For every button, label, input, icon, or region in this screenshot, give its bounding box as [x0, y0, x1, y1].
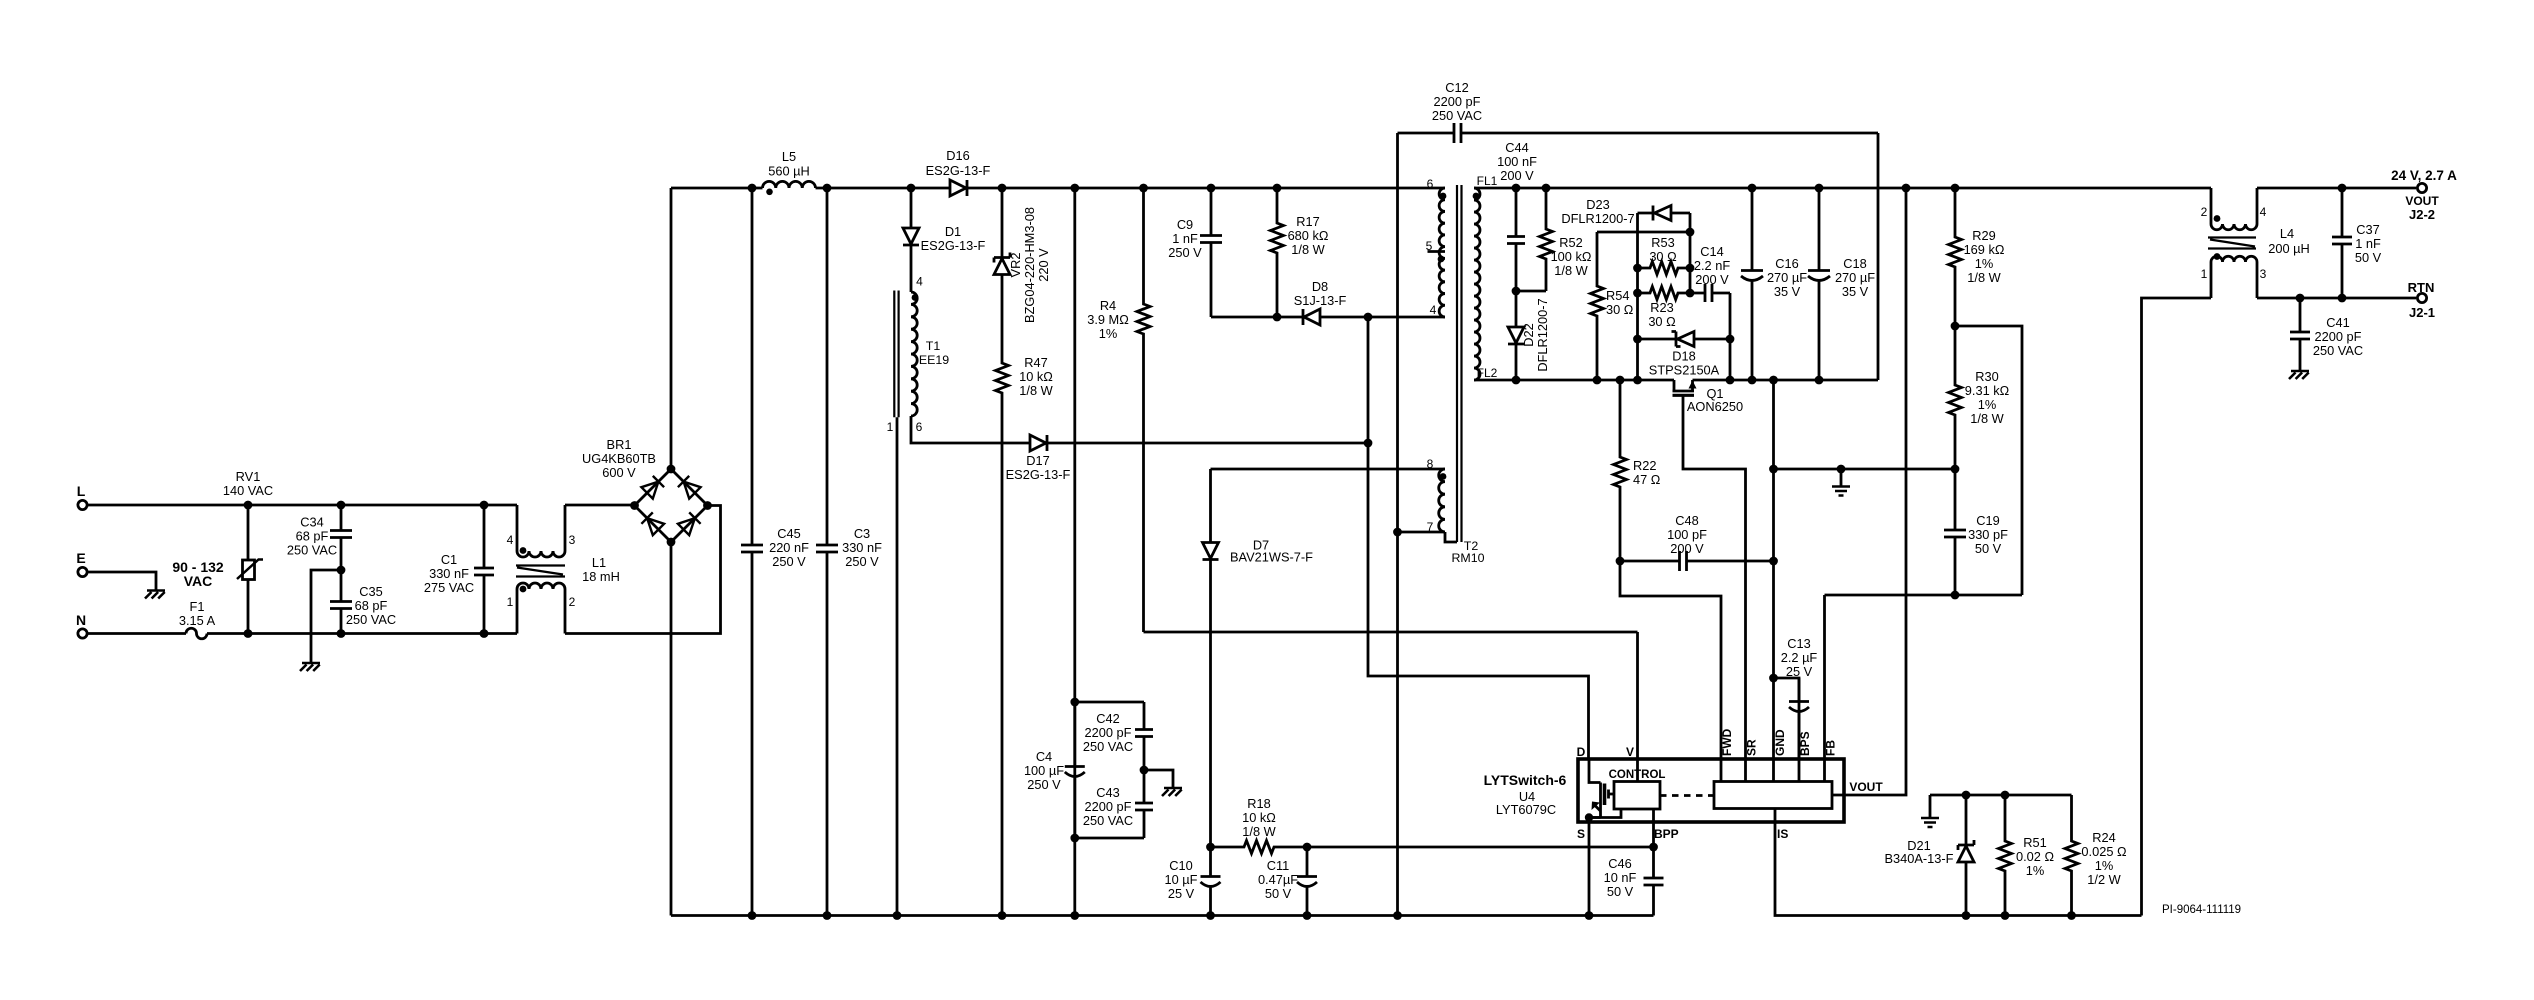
diode D16 — [926, 148, 991, 196]
svg-text:270 µF: 270 µF — [1835, 270, 1875, 285]
capacitor C34 — [287, 505, 352, 570]
node C34-C35 junction to ground — [311, 566, 345, 663]
capacitor C3 — [816, 188, 882, 916]
wire BR1 bottom to GND bus — [670, 542, 673, 916]
svg-text:R53: R53 — [1651, 235, 1674, 250]
ground (C34/C35 midpoint) — [300, 663, 320, 671]
svg-text:LYT6079C: LYT6079C — [1496, 802, 1556, 817]
svg-text:1%: 1% — [1975, 256, 1994, 271]
svg-text:R24: R24 — [2092, 830, 2115, 845]
diode D23 — [1561, 197, 1690, 226]
svg-text:C9: C9 — [1177, 217, 1193, 232]
capacitor C46 — [1604, 847, 1664, 916]
svg-text:R52: R52 — [1559, 235, 1582, 250]
capacitor C43 — [1083, 770, 1153, 838]
resistor R23 — [1638, 287, 1691, 330]
svg-text:C35: C35 — [359, 584, 382, 599]
pin label FB — [1824, 740, 1838, 756]
fuse F1 — [88, 599, 248, 639]
svg-text:C11: C11 — [1267, 858, 1290, 873]
svg-text:3.9 MΩ: 3.9 MΩ — [1087, 312, 1129, 327]
resistor R17 — [1271, 188, 1329, 317]
capacitor C19 — [1944, 469, 2008, 595]
wire FL1 rail — [1474, 184, 2211, 193]
label output rating — [2391, 168, 2457, 183]
svg-text:C48: C48 — [1675, 513, 1698, 528]
svg-text:VOUT: VOUT — [1849, 780, 1883, 794]
pin label FWD — [1720, 728, 1734, 756]
wire FB row — [1825, 591, 2023, 760]
svg-text:ES2G-13-F: ES2G-13-F — [1006, 467, 1071, 482]
pin label GND — [1773, 729, 1787, 756]
svg-text:30 Ω: 30 Ω — [1648, 314, 1676, 329]
capacitor C4 — [1024, 702, 1085, 838]
wire divider tap — [1951, 322, 2022, 595]
wire secondary GND vertical — [1769, 380, 1778, 760]
wire L1 pin3 to BR1 left — [565, 504, 635, 507]
svg-text:D17: D17 — [1026, 453, 1049, 468]
wire V-node row — [1206, 843, 1658, 852]
svg-text:0.47µF: 0.47µF — [1258, 872, 1298, 887]
wire L1 pin2 to BR1 right — [565, 506, 721, 634]
svg-text:18 mH: 18 mH — [582, 569, 620, 584]
pin label BPP — [1654, 827, 1679, 841]
wire FL2 rail right — [1693, 376, 1879, 385]
wire HV top bus — [671, 184, 1445, 193]
svg-text:BPS: BPS — [1798, 731, 1812, 756]
node E (earth terminal) — [76, 550, 87, 577]
svg-text:R51: R51 — [2023, 835, 2046, 850]
wire C4 branch — [1070, 188, 1079, 916]
capacitor C16 — [1741, 188, 1807, 380]
svg-text:3.15 A: 3.15 A — [179, 613, 216, 628]
node C42-C43 midpoint — [1140, 766, 1173, 788]
capacitor C14 — [1690, 244, 1730, 302]
svg-text:1%: 1% — [1099, 326, 1118, 341]
node U4 right block — [1714, 782, 1832, 809]
svg-text:1/8 W: 1/8 W — [1242, 824, 1276, 839]
svg-text:250 V: 250 V — [845, 554, 879, 569]
svg-text:2200 pF: 2200 pF — [1434, 94, 1481, 109]
svg-text:C19: C19 — [1976, 513, 1999, 528]
svg-text:L4: L4 — [2280, 226, 2294, 241]
pin label BPS — [1798, 731, 1812, 756]
resistor R53 — [1638, 235, 1691, 275]
svg-text:100 kΩ: 100 kΩ — [1551, 249, 1592, 264]
svg-text:1%: 1% — [2095, 858, 2114, 873]
wire RTN return vertical — [2142, 298, 2212, 916]
diode D22 — [1508, 291, 1550, 380]
svg-text:1/2 W: 1/2 W — [2087, 872, 2121, 887]
svg-text:ES2G-13-F: ES2G-13-F — [926, 163, 991, 178]
svg-text:3: 3 — [2260, 267, 2267, 281]
svg-text:ES2G-13-F: ES2G-13-F — [921, 238, 986, 253]
wire L line — [88, 501, 517, 510]
svg-text:30 Ω: 30 Ω — [1606, 302, 1634, 317]
svg-text:C16: C16 — [1775, 256, 1798, 271]
wire BPP route — [1652, 823, 1655, 847]
svg-text:BR1: BR1 — [607, 437, 632, 452]
svg-text:EE19: EE19 — [919, 353, 949, 367]
svg-text:200 V: 200 V — [1695, 272, 1729, 287]
wire VOUT vertical — [1844, 188, 1906, 795]
diode D7 — [1203, 536, 1314, 565]
svg-text:2200 pF: 2200 pF — [2315, 329, 2362, 344]
wire output VOUT rail — [2257, 184, 2416, 193]
diode D17 — [1006, 435, 1071, 482]
ground (sense rail) — [1921, 818, 1939, 827]
pin label IS — [1777, 827, 1788, 841]
wire output RTN rail — [2257, 294, 2416, 303]
svg-text:BZG04-220-HM3-08: BZG04-220-HM3-08 — [1022, 207, 1037, 323]
wire C43 bottom — [1075, 837, 1144, 840]
pin label VOUT — [1849, 780, 1883, 794]
svg-text:47 Ω: 47 Ω — [1633, 472, 1661, 487]
svg-text:560 µH: 560 µH — [768, 164, 810, 179]
svg-text:1/8 W: 1/8 W — [1019, 383, 1053, 398]
wire CONTROL dashed link — [1660, 794, 1714, 797]
svg-text:T1: T1 — [926, 339, 941, 353]
svg-text:RTN: RTN — [2408, 280, 2435, 295]
node VOUT J2-2 — [2405, 183, 2439, 222]
wire FL2 rail left — [1474, 376, 1674, 385]
svg-text:C13: C13 — [1787, 636, 1810, 651]
wire D7 to C10 node — [1209, 562, 1212, 847]
capacitor C48 — [1616, 513, 1778, 571]
wire snubber node (D8 row) — [1211, 313, 1445, 322]
svg-text:C46: C46 — [1608, 856, 1631, 871]
capacitor C1 — [424, 505, 494, 634]
svg-text:C1: C1 — [441, 552, 457, 567]
svg-text:DFLR1200-7: DFLR1200-7 — [1561, 211, 1634, 226]
svg-text:250 V: 250 V — [1168, 245, 1202, 260]
svg-text:VOUT: VOUT — [2405, 194, 2439, 208]
svg-text:FL1: FL1 — [1477, 174, 1498, 188]
svg-text:N: N — [76, 612, 86, 628]
resistor R47 — [996, 275, 1054, 916]
node RTN J2-1 — [2408, 280, 2435, 320]
svg-text:100 nF: 100 nF — [1497, 154, 1537, 169]
svg-text:1: 1 — [507, 595, 514, 609]
svg-text:D22: D22 — [1521, 323, 1536, 346]
svg-text:C37: C37 — [2356, 222, 2379, 237]
ground (secondary, near C19) — [1832, 487, 1850, 496]
pin label D — [1577, 745, 1586, 759]
svg-text:S1J-13-F: S1J-13-F — [1294, 293, 1347, 308]
svg-text:4: 4 — [1430, 303, 1437, 317]
capacitor C13 — [1774, 636, 1818, 760]
svg-text:C18: C18 — [1843, 256, 1866, 271]
svg-text:R22: R22 — [1633, 458, 1656, 473]
capacitor C42 — [1083, 702, 1153, 770]
label 90-132 VAC — [172, 559, 224, 589]
svg-text:L5: L5 — [782, 149, 796, 164]
svg-text:R29: R29 — [1972, 228, 1995, 243]
svg-text:VR2: VR2 — [1008, 253, 1023, 278]
svg-text:GND: GND — [1773, 729, 1787, 756]
svg-text:10 nF: 10 nF — [1604, 870, 1637, 885]
svg-text:0.02 Ω: 0.02 Ω — [2016, 849, 2054, 864]
svg-text:35 V: 35 V — [1842, 284, 1869, 299]
diode D18 — [1638, 332, 1731, 378]
svg-text:68 pF: 68 pF — [296, 529, 329, 544]
wire N line — [244, 629, 517, 638]
wire V pin route — [1144, 632, 1638, 760]
svg-text:D18: D18 — [1672, 349, 1695, 364]
resistor R22 — [1614, 380, 1661, 561]
svg-text:2: 2 — [2201, 205, 2208, 219]
svg-text:DFLR1200-7: DFLR1200-7 — [1535, 298, 1550, 371]
svg-text:D23: D23 — [1586, 197, 1609, 212]
node L (line input terminal) — [77, 483, 87, 510]
inductor L4 — [2201, 188, 2310, 298]
svg-text:BAV21WS-7-F: BAV21WS-7-F — [1230, 550, 1313, 565]
bridge rectifier BR1 — [582, 437, 712, 546]
svg-text:250 VAC: 250 VAC — [346, 612, 396, 627]
wire C14 drop — [1726, 293, 1735, 380]
svg-text:PI-9064-111119: PI-9064-111119 — [2162, 904, 2241, 916]
svg-text:200 V: 200 V — [1500, 168, 1534, 183]
svg-text:50 V: 50 V — [1607, 884, 1634, 899]
transformer T2 — [1426, 174, 1498, 565]
svg-text:1: 1 — [2201, 267, 2208, 281]
wire sense top rail — [1930, 791, 2072, 817]
svg-text:2200 pF: 2200 pF — [1085, 725, 1132, 740]
wire S pin route — [1588, 823, 1591, 916]
wire R54 top row — [1597, 231, 1690, 234]
svg-text:8: 8 — [1427, 457, 1434, 471]
capacitor C35 — [330, 570, 396, 634]
svg-text:1/8 W: 1/8 W — [1291, 242, 1325, 257]
svg-text:1/8 W: 1/8 W — [1554, 263, 1588, 278]
svg-text:330 pF: 330 pF — [1968, 527, 2008, 542]
node N (neutral terminal) — [76, 612, 87, 638]
ground (earth input) — [145, 591, 165, 599]
svg-text:169 kΩ: 169 kΩ — [1964, 242, 2005, 257]
svg-text:FWD: FWD — [1720, 728, 1734, 756]
node CONTROL block — [1609, 769, 1666, 809]
label PI-9064-111119 — [2162, 904, 2241, 916]
diode D21 — [1885, 795, 1975, 916]
op-amp U4 (LYTSwitch-6 IC body) — [1484, 759, 1844, 822]
svg-text:1: 1 — [887, 420, 894, 434]
svg-text:100 µF: 100 µF — [1024, 763, 1064, 778]
svg-text:C34: C34 — [300, 515, 323, 530]
svg-text:C4: C4 — [1036, 749, 1052, 764]
transistor U4 internal MOSFET — [1585, 760, 1621, 823]
wire drain node vertical — [1364, 317, 1589, 760]
svg-text:R47: R47 — [1024, 355, 1047, 370]
svg-text:680 kΩ: 680 kΩ — [1288, 228, 1329, 243]
svg-text:6: 6 — [916, 420, 923, 434]
svg-text:E: E — [76, 550, 85, 566]
zener VR2 — [994, 188, 1051, 323]
svg-text:FB: FB — [1824, 740, 1838, 756]
svg-text:C43: C43 — [1096, 785, 1119, 800]
svg-text:R17: R17 — [1296, 214, 1319, 229]
svg-text:BPP: BPP — [1654, 827, 1679, 841]
svg-text:600 V: 600 V — [602, 465, 636, 480]
svg-text:D16: D16 — [946, 148, 969, 163]
svg-text:330 nF: 330 nF — [842, 540, 882, 555]
svg-text:250 VAC: 250 VAC — [1083, 813, 1133, 828]
capacitor C41 — [2290, 298, 2363, 371]
svg-text:50 V: 50 V — [1975, 541, 2002, 556]
resistor R24 — [2065, 795, 2127, 916]
pin label S — [1577, 827, 1585, 841]
inductor L5 — [752, 149, 827, 195]
svg-text:RM10: RM10 — [1451, 551, 1484, 565]
varistor RV1 — [223, 469, 273, 634]
svg-text:10 µF: 10 µF — [1165, 872, 1198, 887]
svg-text:J2-2: J2-2 — [2409, 207, 2435, 222]
svg-text:4: 4 — [2260, 205, 2267, 219]
wire T1 pin6 to D17 — [911, 416, 913, 443]
svg-text:R30: R30 — [1975, 369, 1998, 384]
svg-text:1 nF: 1 nF — [2355, 236, 2381, 251]
svg-text:250 VAC: 250 VAC — [1432, 108, 1482, 123]
svg-text:24 V, 2.7 A: 24 V, 2.7 A — [2391, 168, 2457, 183]
ground (C42/C43 midpoint) — [1162, 788, 1182, 796]
pin label V — [1626, 745, 1634, 759]
svg-text:1%: 1% — [1978, 397, 1997, 412]
svg-text:200 µH: 200 µH — [2268, 241, 2310, 256]
resistor R54 — [1591, 232, 1634, 380]
svg-text:250 VAC: 250 VAC — [287, 543, 337, 558]
wire E to ground — [88, 572, 156, 590]
capacitor C12 — [1398, 80, 1879, 143]
svg-text:L1: L1 — [592, 555, 606, 570]
svg-text:D1: D1 — [945, 224, 961, 239]
diode D1 — [903, 188, 986, 292]
wire snubber netB — [1686, 213, 1695, 297]
wire IS route — [1775, 823, 2142, 920]
pin label SR — [1745, 739, 1759, 756]
transformer T1 — [887, 275, 950, 916]
svg-text:C10: C10 — [1169, 858, 1192, 873]
capacitor C44 — [1497, 140, 1537, 291]
resistor R29 — [1949, 188, 2005, 326]
svg-text:220 V: 220 V — [1036, 248, 1051, 282]
svg-text:D: D — [1577, 745, 1586, 759]
svg-text:1 nF: 1 nF — [1172, 231, 1198, 246]
resistor R30 — [1949, 326, 2010, 473]
svg-text:4: 4 — [507, 533, 514, 547]
capacitor C37 — [2332, 188, 2382, 298]
capacitor C45 — [741, 188, 809, 916]
svg-text:L: L — [77, 483, 86, 499]
svg-text:9.31 kΩ: 9.31 kΩ — [1965, 383, 2010, 398]
resistor R51 — [1999, 795, 2055, 916]
svg-text:2: 2 — [569, 595, 576, 609]
capacitor C11 — [1258, 847, 1317, 916]
svg-text:270 µF: 270 µF — [1767, 270, 1807, 285]
inductor L1 (common mode choke) — [507, 505, 620, 634]
svg-text:C45: C45 — [777, 526, 800, 541]
svg-text:2.2 nF: 2.2 nF — [1694, 258, 1730, 273]
svg-text:5: 5 — [1426, 239, 1433, 253]
wire snubber netA — [1633, 213, 1642, 380]
svg-text:IS: IS — [1777, 827, 1788, 841]
svg-text:3: 3 — [569, 533, 576, 547]
svg-text:220 nF: 220 nF — [769, 540, 809, 555]
wire U4 pin stubs — [1638, 760, 1845, 823]
wire secondary GND row — [1774, 465, 1956, 486]
svg-text:10 kΩ: 10 kΩ — [1019, 369, 1053, 384]
svg-text:68 pF: 68 pF — [355, 598, 388, 613]
svg-text:6: 6 — [1427, 177, 1434, 191]
svg-text:10 kΩ: 10 kΩ — [1242, 810, 1276, 825]
svg-text:1/8 W: 1/8 W — [1967, 270, 2001, 285]
svg-text:C14: C14 — [1700, 244, 1723, 259]
transistor Q1 — [1673, 380, 1746, 760]
svg-text:RV1: RV1 — [236, 469, 261, 484]
ground (C41) — [2289, 371, 2309, 379]
svg-text:STPS2150A: STPS2150A — [1649, 363, 1720, 378]
svg-text:250 V: 250 V — [1027, 777, 1061, 792]
wire T2 pin8 row — [1211, 469, 1446, 536]
svg-text:R54: R54 — [1606, 288, 1629, 303]
wire C12 right drop — [1877, 133, 1880, 380]
capacitor C10 — [1165, 847, 1221, 916]
wire R22 to FWD — [1620, 561, 1721, 760]
svg-text:1/8 W: 1/8 W — [1970, 411, 2004, 426]
svg-text:D8: D8 — [1312, 279, 1328, 294]
svg-text:C41: C41 — [2326, 315, 2349, 330]
capacitor C9 — [1168, 188, 1222, 317]
svg-text:V: V — [1626, 745, 1634, 759]
svg-text:R18: R18 — [1247, 796, 1270, 811]
svg-text:4: 4 — [916, 275, 923, 289]
svg-text:R23: R23 — [1650, 300, 1673, 315]
resistor R18 — [1236, 796, 1282, 854]
resistor R4 — [1087, 188, 1150, 632]
svg-text:200 V: 200 V — [1670, 541, 1704, 556]
svg-text:UG4KB60TB: UG4KB60TB — [582, 451, 656, 466]
svg-text:250 VAC: 250 VAC — [1083, 739, 1133, 754]
svg-text:250 VAC: 250 VAC — [2313, 343, 2363, 358]
svg-text:C42: C42 — [1096, 711, 1119, 726]
svg-text:FL2: FL2 — [1477, 366, 1498, 380]
diode D8 — [1294, 279, 1347, 325]
svg-text:100 pF: 100 pF — [1667, 527, 1707, 542]
svg-text:0.025 Ω: 0.025 Ω — [2081, 844, 2127, 859]
svg-text:250 V: 250 V — [772, 554, 806, 569]
svg-text:S: S — [1577, 827, 1585, 841]
svg-text:1%: 1% — [2026, 863, 2045, 878]
resistor R52 — [1512, 188, 1592, 295]
wire BR1 top to HV bus — [670, 188, 673, 469]
svg-text:2.2 µF: 2.2 µF — [1781, 650, 1818, 665]
svg-text:25 V: 25 V — [1168, 886, 1195, 901]
svg-text:2200 pF: 2200 pF — [1085, 799, 1132, 814]
wire C42 top — [1075, 701, 1144, 704]
svg-text:330 nF: 330 nF — [429, 566, 469, 581]
svg-text:C3: C3 — [854, 526, 870, 541]
svg-text:B340A-13-F: B340A-13-F — [1885, 851, 1954, 866]
svg-text:140 VAC: 140 VAC — [223, 483, 273, 498]
svg-text:25 V: 25 V — [1786, 664, 1813, 679]
svg-text:C44: C44 — [1505, 140, 1528, 155]
svg-text:AON6250: AON6250 — [1687, 399, 1743, 414]
svg-text:50 V: 50 V — [2355, 250, 2382, 265]
wire C12/T2-pin7 vertical — [1393, 133, 1402, 916]
svg-text:VAC: VAC — [184, 573, 213, 589]
svg-text:C12: C12 — [1445, 80, 1468, 95]
svg-text:50 V: 50 V — [1265, 886, 1292, 901]
wire primary GND bus — [671, 911, 1654, 920]
svg-text:SR: SR — [1745, 739, 1759, 756]
